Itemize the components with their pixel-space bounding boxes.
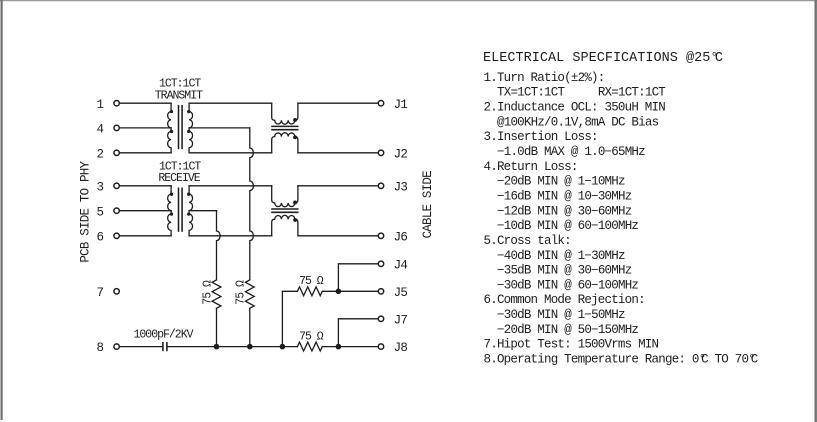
pin J1 (cable side) — [378, 98, 407, 112]
wire T1 secondary bottom to choke T3 — [189, 152, 272, 154]
pin J7 (cable side) — [378, 313, 407, 327]
svg-text:−40dB MIN @ 1−30MHz: −40dB MIN @ 1−30MHz — [497, 249, 625, 263]
pin 7 (PCB side) — [97, 286, 120, 300]
pin 8 (PCB side) — [97, 341, 120, 355]
transformer T2 secondary winding — [189, 186, 192, 236]
svg-text:ELECTRICAL SPECFICATIONS @25°C: ELECTRICAL SPECFICATIONS @25°C — [483, 51, 723, 66]
choke T3 core — [271, 126, 298, 129]
svg-text:@100KHz/0.1V,8mA DC Bias: @100KHz/0.1V,8mA DC Bias — [497, 115, 659, 129]
svg-text:6.Common Mode Rejection:: 6.Common Mode Rejection: — [484, 293, 645, 307]
resistor R3 zigzag — [297, 287, 322, 296]
wire pin 3 to transformer — [119, 185, 171, 187]
pin 3 (PCB side) — [97, 180, 120, 194]
svg-text:75 Ω: 75 Ω — [235, 280, 248, 305]
transformer T1 core — [179, 105, 183, 149]
svg-text:75 Ω: 75 Ω — [299, 331, 324, 344]
svg-text:−20dB MIN @ 1−10MHz: −20dB MIN @ 1−10MHz — [497, 175, 625, 189]
pin 4 (PCB side) — [97, 123, 120, 137]
wire junction up to J4 — [338, 264, 378, 292]
spec list — [484, 71, 758, 367]
svg-text:1: 1 — [97, 98, 105, 112]
wire pin 8 to capacitor C1 — [119, 346, 162, 348]
svg-text:TX=1CT:1CT RX=1CT:1CT: TX=1CT:1CT RX=1CT:1CT — [497, 86, 666, 100]
wire T2 secondary top to choke T4 — [189, 185, 272, 187]
svg-text:J5: J5 — [394, 286, 408, 300]
svg-text:CABLE SIDE: CABLE SIDE — [421, 171, 435, 238]
pin J3 (cable side) — [378, 180, 407, 194]
wire ground bus capacitor to resistor R4 — [167, 346, 298, 348]
wire pin 6 to transformer — [119, 235, 171, 237]
resistor R2 (TX CT) zigzag — [245, 280, 254, 308]
wire choke T4 to J3 — [298, 185, 378, 187]
svg-text:−1.0dB MAX @ 1.0−65MHz: −1.0dB MAX @ 1.0−65MHz — [497, 145, 645, 159]
pin J8 (cable side) — [378, 341, 407, 355]
junction at (338.4,291.3) — [336, 289, 342, 295]
svg-text:3: 3 — [97, 180, 105, 194]
transformer T1 primary winding — [168, 103, 171, 153]
svg-text:8: 8 — [97, 341, 105, 355]
svg-text:1.Turn Ratio(±2%):: 1.Turn Ratio(±2%): — [484, 71, 605, 85]
pin 1 (PCB side) — [97, 98, 120, 112]
wire pin 1 to transformer — [119, 102, 171, 104]
wire resistor R3 to J5 — [322, 290, 378, 292]
svg-text:75 Ω: 75 Ω — [299, 275, 324, 288]
wire choke T3 to J2 — [298, 152, 378, 154]
wire T2 CT vertical to resistor R1 (hop) — [217, 211, 221, 280]
wire resistor R4 to J8 — [322, 346, 378, 348]
pin 2 (PCB side) — [97, 147, 120, 161]
svg-text:−30dB MIN @ 60−100MHz: −30dB MIN @ 60−100MHz — [497, 278, 638, 292]
svg-text:J8: J8 — [394, 341, 408, 355]
svg-text:TRANSMIT: TRANSMIT — [155, 90, 203, 103]
svg-text:2.Inductance OCL: 350uH MIN: 2.Inductance OCL: 350uH MIN — [484, 101, 666, 115]
wire pin 5 to transformer — [119, 210, 171, 212]
svg-text:4.Return Loss:: 4.Return Loss: — [484, 160, 578, 174]
wire resistor R2 to bus — [249, 308, 251, 346]
svg-text:J6: J6 — [394, 230, 408, 244]
svg-text:PCB SIDE TO PHY: PCB SIDE TO PHY — [78, 161, 92, 263]
svg-text:5.Cross talk:: 5.Cross talk: — [484, 234, 571, 248]
choke T4 bottom winding — [272, 215, 298, 236]
pin J5 (cable side) — [378, 286, 407, 300]
svg-text:−20dB MIN @ 50−150MHz: −20dB MIN @ 50−150MHz — [497, 323, 638, 337]
svg-text:J2: J2 — [394, 147, 408, 161]
pin J4 (cable side) — [378, 258, 407, 272]
wire choke T4 to J6 — [298, 235, 378, 237]
transformer T2 core — [179, 188, 183, 232]
svg-text:75 Ω: 75 Ω — [202, 280, 215, 305]
wire pin 4 to transformer — [119, 127, 171, 129]
junction at (249.8,346.6) — [247, 344, 253, 350]
pin J6 (cable side) — [378, 230, 407, 244]
wire T1 secondary top to choke T3 — [189, 102, 272, 104]
capacitor C1 plates — [163, 342, 167, 351]
svg-text:J3: J3 — [394, 180, 408, 194]
svg-text:2: 2 — [97, 147, 105, 161]
svg-text:J1: J1 — [394, 98, 408, 112]
svg-text:RECEIVE: RECEIVE — [158, 172, 200, 185]
junction at (216.5,346.6) — [214, 344, 220, 350]
svg-text:6: 6 — [97, 230, 105, 244]
pin J2 (cable side) — [378, 147, 407, 161]
svg-text:1000pF/2KV: 1000pF/2KV — [133, 328, 193, 341]
svg-text:7.Hipot Test: 1500Vrms MIN: 7.Hipot Test: 1500Vrms MIN — [484, 338, 659, 352]
wire T1 CT vertical to resistor R2 (hops) — [250, 128, 254, 280]
wire junction up to J7 — [338, 319, 378, 347]
svg-text:−35dB MIN @ 30−60MHz: −35dB MIN @ 30−60MHz — [497, 264, 632, 278]
resistor R4 zigzag — [297, 342, 322, 351]
wire T2 secondary bottom to choke T4 — [189, 235, 272, 237]
resistor R1 (RX CT) zigzag — [212, 280, 221, 308]
svg-text:J4: J4 — [394, 258, 408, 272]
svg-text:−10dB MIN @ 60−100MHz: −10dB MIN @ 60−100MHz — [497, 219, 638, 233]
svg-text:−12dB MIN @ 30−60MHz: −12dB MIN @ 30−60MHz — [497, 204, 632, 218]
pin 6 (PCB side) — [97, 230, 120, 244]
choke T4 core — [271, 209, 298, 212]
svg-text:−16dB MIN @ 10−30MHz: −16dB MIN @ 10−30MHz — [497, 189, 632, 203]
svg-text:8.Operating Temperature Range:: 8.Operating Temperature Range: 0°C TO 70… — [484, 353, 758, 367]
wire T1 secondary center tap — [189, 127, 250, 129]
junction at (282.4,346.6) — [280, 344, 286, 350]
wire branch vertical to resistor R3 — [282, 291, 297, 346]
wire pin 2 to transformer — [119, 152, 171, 154]
junction at (338.4,346.6) — [336, 344, 342, 350]
svg-text:7: 7 — [97, 286, 105, 300]
svg-text:5: 5 — [97, 205, 105, 219]
choke T4 top winding — [272, 186, 298, 207]
wire T2 secondary center tap — [189, 210, 216, 212]
choke T3 bottom winding — [272, 133, 298, 153]
wire choke T3 to J1 — [298, 102, 378, 104]
wire resistor R1 to bus — [216, 308, 218, 346]
svg-text:−30dB MIN @ 1−50MHz: −30dB MIN @ 1−50MHz — [497, 308, 625, 322]
transformer T1 secondary winding — [189, 103, 192, 153]
transformer T2 primary winding — [168, 186, 171, 236]
svg-text:3.Insertion Loss:: 3.Insertion Loss: — [484, 130, 598, 144]
svg-text:J7: J7 — [394, 313, 408, 327]
choke T3 top winding — [272, 103, 298, 124]
svg-text:4: 4 — [97, 123, 105, 137]
pin 5 (PCB side) — [97, 205, 120, 219]
